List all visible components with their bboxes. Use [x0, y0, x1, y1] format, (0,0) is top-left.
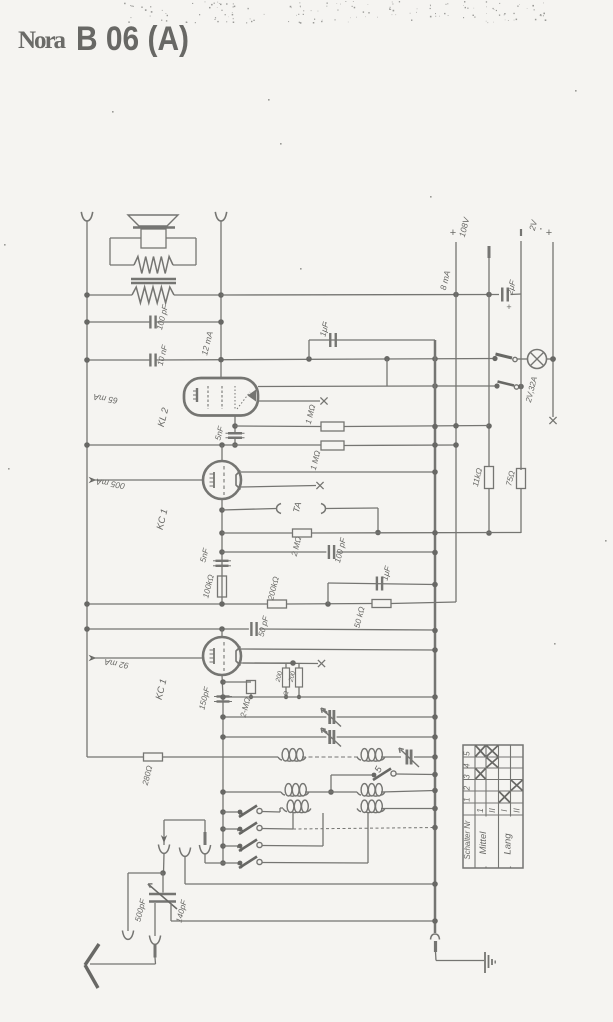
svg-text:+: +: [546, 227, 552, 239]
svg-text:1: 1: [475, 808, 485, 813]
svg-text:Nora: Nora: [18, 27, 67, 54]
svg-text:3: 3: [463, 774, 472, 779]
svg-text:4: 4: [463, 763, 472, 768]
svg-text:+: +: [506, 302, 511, 312]
svg-text:B 06 (A): B 06 (A): [76, 20, 189, 58]
svg-text:Schalter Nr: Schalter Nr: [463, 820, 472, 859]
svg-text:Lang: Lang: [503, 833, 514, 855]
svg-text:2: 2: [463, 785, 472, 791]
svg-text:5: 5: [463, 751, 472, 756]
svg-text:II: II: [511, 808, 521, 813]
svg-text:Mittel: Mittel: [478, 831, 489, 855]
svg-text:II: II: [487, 808, 497, 813]
svg-text:+: +: [450, 227, 456, 239]
svg-text:1: 1: [463, 797, 472, 801]
